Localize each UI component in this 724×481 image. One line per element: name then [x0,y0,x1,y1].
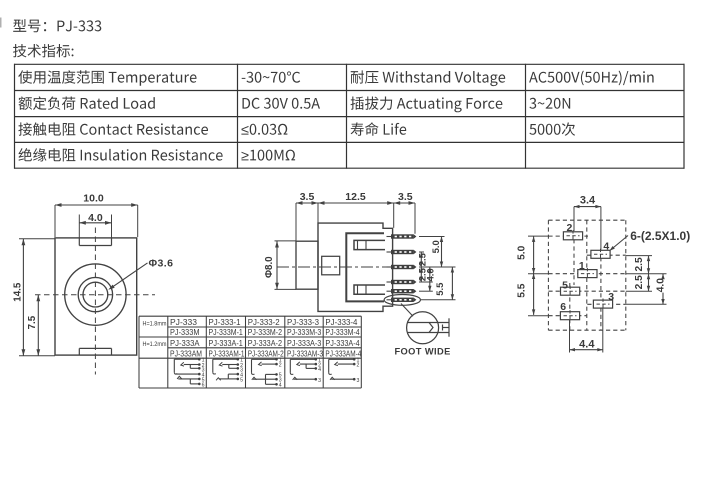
svg-text:2.5: 2.5 [634,275,645,289]
svg-text:4.0: 4.0 [656,278,667,292]
pad 6 [560,301,579,322]
dim 5.0 pins [430,237,443,268]
dim 5.5 pins [434,267,454,300]
dim phi 8.0 [264,241,296,290]
spec cell AC500V(50Hz)/m [529,71,654,86]
svg-text:12.5: 12.5 [345,191,366,203]
svg-text:PJ-333M-3: PJ-333M-3 [287,327,322,337]
front view vertical centerline [94,228,96,375]
spec cell 使用温度范围 Tempera [18,70,196,86]
svg-text:PJ-333A: PJ-333A [170,338,200,348]
svg-text:3: 3 [608,291,614,303]
svg-text:4: 4 [279,383,282,389]
part table grid [139,316,361,388]
front view top tab [79,238,111,246]
dim 3.4 pcb [574,194,601,249]
spec table grid [14,64,685,169]
spec cell ≤0.03Ω [241,124,287,135]
svg-text:3.4: 3.4 [580,194,596,206]
svg-text:5: 5 [562,279,568,291]
svg-text:PJ-333A-2: PJ-333A-2 [248,338,283,348]
svg-text:5: 5 [240,378,243,384]
foot magnifier circle [407,312,439,344]
svg-text:PJ-333M: PJ-333M [170,327,200,337]
schematic PJ-333-1 5pin [213,357,243,383]
part number PJ-333M-3 cell [287,327,322,337]
dim 14.5 [12,239,55,356]
svg-text:2: 2 [566,222,572,234]
svg-text:PJ-333A-1: PJ-333A-1 [209,338,244,348]
ellipse around pin 6 [384,295,420,306]
svg-text:2: 2 [279,363,282,369]
svg-text:4.0: 4.0 [424,268,435,281]
dim 5.0 5.5 pcb left [516,236,535,315]
spec cell ≥100MΩ [242,150,296,161]
spec cell 额定负荷 Rated Loa [19,96,155,110]
part number PJ-333AM cell [170,348,202,358]
svg-text:H=1.8mm: H=1.8mm [143,320,167,327]
dim 4.0 pcb right [656,274,667,305]
side view upper contact slot [354,240,385,249]
side view right dim ticks [419,237,456,300]
label phi 3.6 with leader [108,258,173,290]
svg-text:PJ-333AM: PJ-333AM [170,348,202,358]
dim 10.0 [55,192,138,237]
side view cavity C wall [346,233,384,301]
svg-text:H=1.2mm: H=1.2mm [143,341,167,348]
part number PJ-333AM-3 cell [287,348,323,358]
spec cell 插拔力 Actuating [351,97,503,113]
part number PJ-333-2 cell [248,317,280,327]
svg-text:6: 6 [202,383,205,389]
spec cell 绝缘电阻 Insulatio [19,148,223,161]
svg-text:3.5: 3.5 [300,191,315,203]
spec cell 耐压 Withstand V [351,70,506,86]
side view flange plate [296,241,318,289]
part number PJ-333AM-1 cell [209,348,245,358]
svg-text:6-(2.5X1.0): 6-(2.5X1.0) [630,229,690,243]
dim 4.0 top [79,212,111,238]
part number PJ-333-3 cell [287,317,319,327]
pin 1 bar [387,234,417,238]
dim 2.5 2.5 pins [416,252,427,282]
part number PJ-333M-2 cell [248,327,283,337]
front view bottom tab [79,348,111,355]
svg-text:FOOT WIDE: FOOT WIDE [394,346,450,356]
svg-text:5.0: 5.0 [430,240,441,253]
part number PJ-333A-1 cell [209,338,244,348]
part number PJ-333A-4 cell [325,338,360,348]
part number PJ-333A-2 cell [248,338,283,348]
part number PJ-333AM-2 cell [248,348,284,358]
dim 4.0 pins [424,267,435,291]
dim 4.4 pcb [570,309,603,353]
header 技术指标: [13,44,74,57]
pin 6 bar [387,298,417,302]
svg-text:3.5: 3.5 [398,191,413,203]
spec cell 5000次 [529,122,575,135]
svg-text:PJ-333M-2: PJ-333M-2 [248,327,283,337]
side view center dash-dot line [277,266,416,268]
svg-text:PJ-333-3: PJ-333-3 [287,317,319,327]
pin 2 bar [387,250,417,254]
part number PJ-333-1 cell [209,317,241,327]
pcb row line pad 6 [528,315,586,317]
dim 7.5 [27,295,40,356]
schematic PJ-333-2 [252,358,282,389]
pcb row line pad 4 [587,254,652,256]
part number PJ-333-4 cell [325,317,357,327]
spec cell DC 30V 0.5A [243,98,321,109]
svg-text:3: 3 [357,378,360,384]
svg-text:10.0: 10.0 [83,192,104,204]
header model number 型号：PJ-333 [13,19,101,32]
svg-text:PJ-333A-4: PJ-333A-4 [325,338,360,348]
svg-text:PJ-333A-3: PJ-333A-3 [287,338,322,348]
pcb row line pad 5 [548,290,652,292]
pad 3 [593,291,614,310]
label 6-(2.5X1.0) with leader [610,229,691,251]
left edge artifact [0,18,2,28]
spec cell 3~20N [529,98,570,109]
pcb row line pad 2 [528,235,588,237]
spec cell 接触电阻 Contact R [18,122,208,135]
svg-text:3: 3 [318,378,321,384]
part number PJ-333M-1 cell [209,327,244,337]
part number PJ-333A cell [170,338,200,348]
pin 5 bar [387,289,417,293]
pin 3 bar [387,265,417,269]
svg-text:5.0: 5.0 [516,245,527,259]
side view body outline [318,223,393,311]
part number PJ-333M-4 cell [325,327,360,337]
svg-text:PJ-333M-4: PJ-333M-4 [325,327,360,337]
part table H labels [143,320,167,348]
svg-text:Φ8.0: Φ8.0 [264,256,275,278]
svg-text:2: 2 [357,363,360,369]
pcb row line pad 1 [528,273,667,275]
svg-text:2.5: 2.5 [634,257,645,271]
svg-text:4: 4 [318,367,321,373]
schematic PJ-333-3 [290,358,321,384]
side view top dims 3.5 12.5 3.5 [296,191,415,241]
dim 2.5 2.5 pcb right [634,256,650,292]
svg-text:7.5: 7.5 [27,315,38,329]
svg-text:Φ3.6: Φ3.6 [149,258,174,270]
svg-text:4: 4 [603,241,609,253]
part number PJ-333 cell [170,317,197,327]
svg-text:4.0: 4.0 [88,212,103,224]
svg-text:1: 1 [579,260,585,272]
svg-text:PJ-333-4: PJ-333-4 [325,317,357,327]
pcb dashed column line pads 2 [573,232,575,285]
side view left stub square [322,256,340,275]
pcb dashed column line pads 4 3 [600,250,602,330]
svg-text:5.5: 5.5 [434,283,445,296]
front view body rect [55,238,137,355]
pcb dashed column line pads 5 6 [569,283,571,330]
pad 4 [591,241,610,260]
pcb dashed outline box [548,220,625,330]
front view horizontal centerline [35,294,155,296]
pcb dashed column line pad 1 [586,220,588,330]
svg-text:5.5: 5.5 [516,283,527,297]
spec cell -30~70℃ [242,71,301,82]
part number PJ-333M cell [170,327,200,337]
svg-text:PJ-333-1: PJ-333-1 [209,317,241,327]
schematic PJ-333 6pin [174,357,204,388]
foot cross-section shape [407,318,449,336]
pcb row line pad 3 [587,303,666,305]
pad 2 [563,222,582,241]
svg-text:PJ-333: PJ-333 [170,317,197,327]
schematic PJ-333-4 [329,358,360,384]
pin 4 bar [387,280,417,284]
svg-text:PJ-333M-1: PJ-333M-1 [209,327,244,337]
part number PJ-333A-3 cell [287,338,322,348]
front view jack circles [65,264,126,325]
svg-text:PJ-333-2: PJ-333-2 [248,317,280,327]
side view lower contact slot [354,285,385,294]
foot magnifier leader [401,304,413,317]
spec cell 寿命 Life [351,122,407,136]
svg-text:6: 6 [560,301,566,313]
pad 5 [561,279,580,297]
svg-text:4.4: 4.4 [579,338,595,350]
pad 1 [578,260,597,279]
svg-text:14.5: 14.5 [12,282,23,302]
part number PJ-333AM-4 cell [325,348,361,358]
svg-text:2.5: 2.5 [416,253,427,266]
